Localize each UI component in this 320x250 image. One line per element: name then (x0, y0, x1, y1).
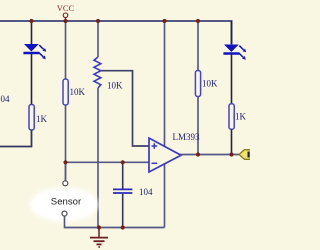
svg-text:1K: 1K (235, 112, 247, 122)
potentiometer RP1 10K zigzag (94, 57, 123, 91)
junction cap top (121, 160, 125, 164)
svg-text:104: 104 (139, 187, 153, 197)
sensor terminal bottom (62, 211, 67, 216)
svg-text:10K: 10K (70, 87, 86, 97)
wire R1 to node A (65, 105, 67, 181)
LED D1 (23, 44, 46, 59)
svg-text:VCC: VCC (57, 4, 75, 13)
op-amp U1 LM393 (149, 132, 200, 172)
resistor R1 10K (63, 79, 86, 105)
junction output at R4 (229, 152, 233, 156)
junction output at R3 (196, 152, 200, 156)
junction dots on VCC rail (29, 19, 33, 23)
junction node A (63, 160, 67, 164)
wire top VCC rail (0, 21, 232, 45)
port DO (cropped at right edge) (239, 150, 251, 160)
node A horizontal wire to inverting input (66, 161, 150, 163)
svg-text:Sensor: Sensor (51, 197, 82, 208)
ground symbol (90, 228, 108, 248)
wire rail corner to LED D2 (231, 21, 233, 44)
resistor R4 1K (229, 104, 247, 130)
wire op-amp output to port (180, 154, 239, 156)
power port VCC (57, 4, 75, 21)
junction ground rail at GND (97, 225, 101, 229)
svg-text:10K: 10K (202, 79, 218, 89)
junction ground rail at cap (121, 225, 125, 229)
wire R4 to output node (231, 129, 233, 154)
wire sensor bottom to ground rail (65, 216, 165, 227)
wire pot bottom to ground rail (97, 88, 99, 228)
sensor terminal top (63, 181, 68, 186)
capacitor C2 104 (113, 162, 153, 227)
wire LED D1 to resistor R2 (31, 54, 33, 105)
svg-text:10K: 10K (107, 81, 123, 91)
wire R2 down and left off-page (0, 130, 32, 147)
wire pot wiper to op-amp + input (101, 71, 149, 146)
svg-text:1K: 1K (36, 114, 48, 124)
wire left branch from rail to LED D1 (31, 21, 33, 44)
svg-text:104: 104 (0, 94, 10, 104)
resistor R2 1K (29, 105, 48, 131)
wire branch x=198 rail to R3 (197, 21, 199, 71)
wire comparator V- power pin to ground rail (164, 161, 166, 228)
wire comparator V+ power pin from rail (164, 21, 166, 149)
resistor R3 10K pull-up (195, 71, 218, 97)
wire R3 to output node (197, 97, 199, 155)
wire branch x=66 rail to R1 (65, 21, 67, 80)
wire branch x=98 rail to potentiometer (97, 21, 99, 57)
sensor bubble (30, 187, 98, 222)
LED D2 (223, 45, 246, 60)
svg-text:LM393: LM393 (173, 132, 201, 142)
wire LED D2 to R4 (231, 55, 233, 105)
wire node A down to sensor terminal (65, 162, 67, 180)
